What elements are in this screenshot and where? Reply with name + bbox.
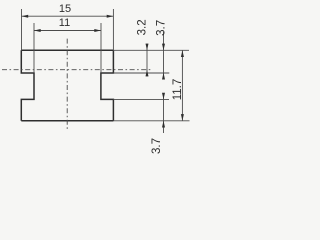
part outline bottom edge: [21, 120, 113, 122]
extension of top edge to right: [113, 49, 189, 51]
part outline left side with notch: [21, 50, 34, 121]
arrow dim15 left: [22, 15, 29, 18]
arrow dim11 left: [34, 29, 41, 32]
arrow dim11.7 up at top edge: [181, 50, 184, 57]
dimension line 3.7 top: [163, 32, 165, 80]
vertical centerline: [66, 39, 68, 131]
horizontal dash-dot line (3.2 reference): [2, 69, 152, 71]
arrow dim3.2 up at dash line: [146, 70, 149, 77]
extension line left for dim 11: [33, 23, 35, 73]
extension of right notch top line: [113, 72, 169, 74]
arrow dim11 right: [94, 29, 101, 32]
extension line right for dim 15: [112, 9, 114, 50]
svg-text:3.7: 3.7: [156, 20, 168, 36]
extension line right for dim 11: [100, 23, 102, 73]
arrow dim15 right: [107, 15, 114, 18]
extension line left for dim 15: [21, 9, 23, 50]
arrow dim3.7bottom down at notch bottom: [162, 93, 165, 100]
dimension line 11.7: [181, 50, 183, 121]
arrow dim3.7bottom up at bottom edge: [162, 121, 165, 128]
dimension line 15: [22, 15, 114, 17]
arrow dim3.2 down at top edge: [146, 44, 149, 51]
dimension line 11: [34, 30, 101, 32]
arrow dim3.7top down at top edge: [162, 44, 165, 51]
arrow dim11.7 down at bottom edge: [181, 114, 184, 121]
extension of right notch bottom line: [113, 98, 169, 100]
svg-text:3.2: 3.2: [137, 19, 149, 35]
arrow dim3.7top up at notch top: [162, 73, 165, 80]
svg-text:15: 15: [59, 3, 71, 15]
part outline top edge: [21, 49, 113, 51]
svg-text:11.7: 11.7: [172, 79, 184, 101]
extension of bottom edge to right: [113, 120, 189, 122]
part outline right side with notch: [101, 50, 114, 121]
dimension line 3.7 bottom: [163, 93, 165, 133]
svg-text:3.7: 3.7: [151, 138, 163, 154]
dimension line 3.2: [146, 44, 148, 77]
svg-text:11: 11: [59, 17, 70, 29]
